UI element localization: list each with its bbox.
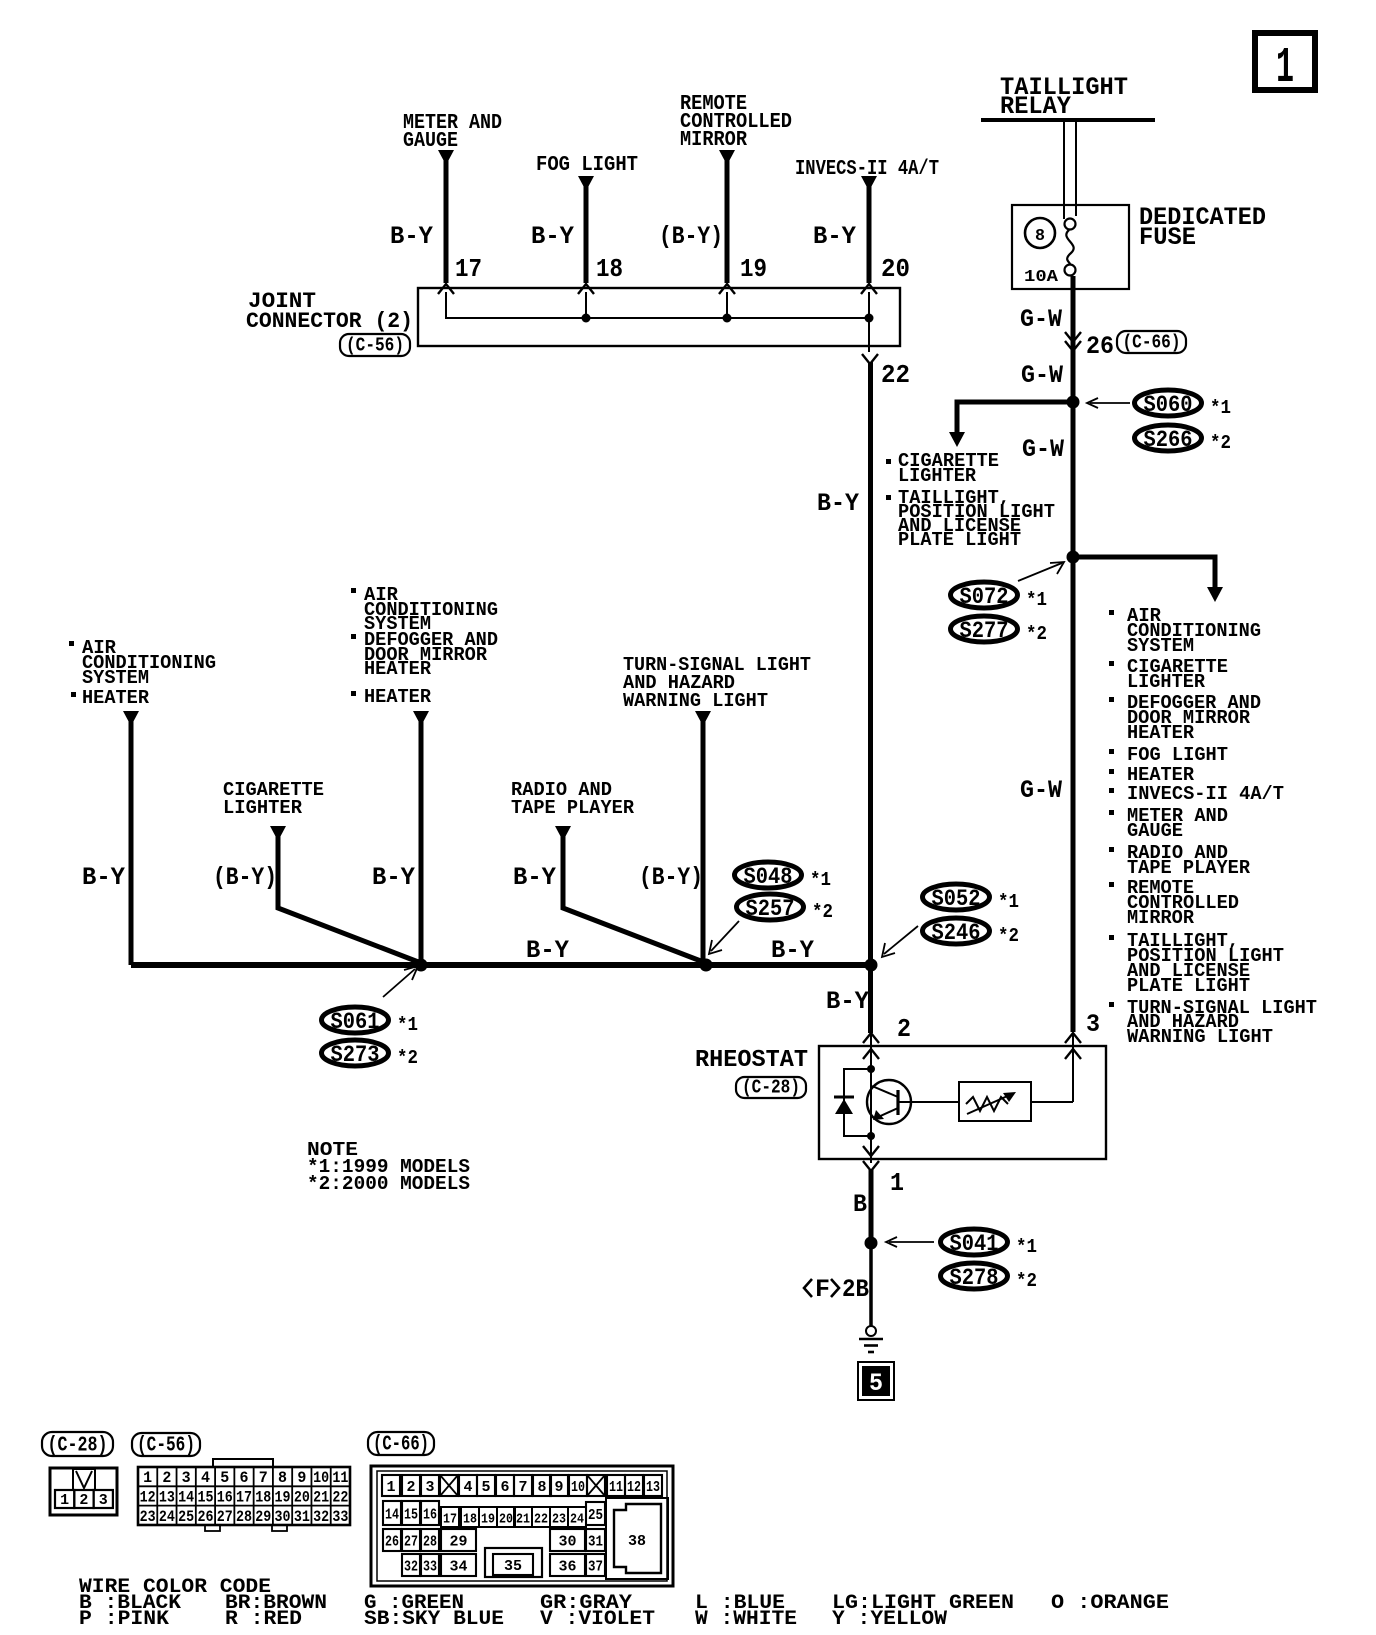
diode branch wire [844, 1069, 871, 1136]
svg-text:W :WHITE: W :WHITE [695, 1608, 797, 1630]
svg-text:B-Y: B-Y [390, 222, 433, 251]
svg-text:14: 14 [385, 1507, 399, 1524]
svg-text:WARNING LIGHT: WARNING LIGHT [623, 690, 768, 712]
wire label (F)2B [804, 1275, 869, 1304]
node rheostat internal top [867, 1065, 875, 1073]
component JOINT CONNECTOR (2) label [246, 289, 413, 334]
svg-text:2B: 2B [842, 1275, 869, 1304]
svg-text:3: 3 [182, 1469, 191, 1487]
svg-text:G-W: G-W [1022, 435, 1064, 464]
joint connector box C-56 [418, 288, 900, 346]
svg-text:(B-Y): (B-Y) [639, 863, 703, 892]
wire B-Y from A/C heater [123, 711, 139, 965]
svg-text:7: 7 [519, 1479, 528, 1496]
destination list cigarette lighter / taillight [886, 450, 999, 487]
svg-text:35: 35 [504, 1558, 522, 1575]
svg-text:3: 3 [99, 1492, 108, 1509]
svg-text:G-W: G-W [1021, 361, 1063, 390]
note 1999/2000 models [307, 1139, 470, 1195]
svg-text:1: 1 [60, 1492, 69, 1509]
svg-text:18: 18 [255, 1489, 271, 1507]
pin 20 entry arrow [861, 284, 877, 294]
svg-text:B-Y: B-Y [82, 863, 125, 892]
junction dot pin19 bus [723, 314, 732, 323]
svg-text:3: 3 [426, 1479, 435, 1496]
svg-text:23: 23 [552, 1512, 566, 1528]
svg-text:*2:2000 MODELS: *2:2000 MODELS [307, 1173, 470, 1195]
joint connector internal bus [446, 292, 869, 352]
svg-text:22: 22 [881, 360, 910, 390]
wire (B-Y) from remote controlled mirror [719, 150, 735, 283]
svg-text:S052: S052 [932, 886, 981, 912]
rheostat pin 3 entry arrows [1065, 1033, 1081, 1102]
arrow from S041 to junction [886, 1237, 934, 1247]
svg-text:B: B [853, 1190, 867, 1219]
svg-text:*2: *2 [812, 901, 833, 923]
component TURN-SIGNAL LIGHT AND HAZARD WARNING LIGHT label [623, 654, 811, 712]
svg-text:S061: S061 [331, 1009, 380, 1035]
svg-text:FUSE: FUSE [1139, 223, 1196, 252]
svg-text:8: 8 [1035, 227, 1045, 246]
svg-text:FOG LIGHT: FOG LIGHT [536, 154, 638, 177]
svg-text:30: 30 [559, 1534, 577, 1551]
svg-text:21: 21 [516, 1512, 530, 1528]
svg-text:(B-Y): (B-Y) [213, 863, 277, 892]
svg-text:LIGHTER: LIGHTER [898, 465, 977, 487]
svg-text:FOG LIGHT: FOG LIGHT [1127, 744, 1228, 766]
svg-text:15: 15 [197, 1489, 213, 1507]
svg-text:10: 10 [571, 1479, 585, 1496]
svg-text:F: F [815, 1275, 830, 1304]
wire color code legend [79, 1576, 1169, 1631]
svg-text:HEATER: HEATER [1127, 722, 1195, 744]
ground reference box 5 [858, 1362, 894, 1400]
svg-text:WARNING LIGHT: WARNING LIGHT [1127, 1026, 1273, 1048]
svg-text:32: 32 [404, 1559, 418, 1576]
svg-text:1: 1 [143, 1469, 152, 1487]
svg-text:8: 8 [538, 1479, 547, 1496]
svg-text:6: 6 [240, 1469, 249, 1487]
splice S277 [951, 616, 1048, 645]
svg-text:S072: S072 [960, 584, 1009, 610]
svg-text:S273: S273 [331, 1042, 380, 1068]
svg-text:27: 27 [404, 1534, 418, 1551]
svg-text:29: 29 [255, 1508, 271, 1526]
svg-text:(B-Y): (B-Y) [659, 222, 723, 251]
svg-text:*1: *1 [1026, 589, 1047, 611]
rheostat pin 1 exit arrows [863, 1146, 879, 1171]
svg-text:*2: *2 [397, 1047, 418, 1069]
svg-text:*2: *2 [998, 925, 1019, 947]
svg-text:*1: *1 [1210, 397, 1231, 419]
wire branch left to cigarette lighter / taillight [949, 402, 1073, 447]
svg-text:32: 32 [313, 1508, 329, 1526]
svg-text:4: 4 [201, 1469, 210, 1487]
svg-text:*2: *2 [1026, 623, 1047, 645]
arrow from S072 to junction [1018, 562, 1064, 581]
splice S048 [735, 862, 832, 891]
wire (B-Y) from turn-signal light [695, 711, 711, 965]
svg-text:9: 9 [297, 1469, 306, 1487]
svg-text:24: 24 [570, 1512, 584, 1528]
svg-text:*1: *1 [1016, 1236, 1037, 1258]
svg-text:S041: S041 [950, 1231, 999, 1257]
connector C-66 pinout [371, 1466, 673, 1586]
svg-text:25: 25 [588, 1507, 603, 1524]
svg-text:RHEOSTAT: RHEOSTAT [695, 1047, 808, 1074]
svg-text:SB:SKY BLUE: SB:SKY BLUE [364, 1608, 504, 1630]
node splice S052/S246 junction [865, 959, 878, 972]
wire B-Y long vertical from pin 22 [868, 362, 873, 1033]
splice S060 [1135, 390, 1232, 419]
svg-text:13: 13 [646, 1479, 660, 1496]
dedicated fuse box (fuse 8, 10A) [1012, 205, 1129, 289]
svg-text:19: 19 [740, 254, 767, 284]
svg-text:11: 11 [332, 1469, 348, 1487]
splice S072 [951, 582, 1048, 611]
junction dot pin18 bus [582, 314, 591, 323]
svg-text:10A: 10A [1024, 268, 1059, 287]
svg-text:S257: S257 [746, 896, 795, 922]
wire relay to dedicated fuse (double line) [1064, 122, 1076, 219]
wire B-Y from radio [555, 826, 706, 963]
component REMOTE CONTROLLED MIRROR label [680, 93, 792, 152]
fuse number circle 8 [1025, 218, 1055, 248]
svg-text:4: 4 [464, 1479, 473, 1496]
connector ref C-28 pill (rheostat) [736, 1077, 806, 1099]
svg-text:GAUGE: GAUGE [403, 130, 458, 153]
arrow from S061 to junction [383, 966, 418, 997]
svg-text:26: 26 [1086, 332, 1114, 361]
svg-text:MIRROR: MIRROR [680, 129, 747, 152]
arrow from S052 to junction [882, 926, 918, 957]
arrow from S060 to junction [1087, 398, 1130, 408]
svg-text:29: 29 [450, 1534, 468, 1551]
svg-text:5: 5 [220, 1469, 229, 1487]
wire B-Y from meter and gauge [438, 150, 454, 283]
svg-text:HEATER: HEATER [82, 687, 150, 709]
connector C-66 pin 26 crossing chevrons [1065, 332, 1081, 351]
pin 18 entry arrow [578, 284, 594, 294]
svg-text:B-Y: B-Y [513, 863, 556, 892]
svg-text:2: 2 [407, 1479, 416, 1496]
component CIGARETTE LIGHTER label [223, 779, 324, 819]
svg-text:INVECS-II 4A/T: INVECS-II 4A/T [1127, 783, 1284, 805]
svg-text:O :ORANGE: O :ORANGE [1051, 1592, 1169, 1615]
svg-text:22: 22 [332, 1489, 348, 1507]
svg-text:PLATE LIGHT: PLATE LIGHT [898, 529, 1021, 551]
svg-text:(C-56): (C-56) [137, 1435, 195, 1458]
svg-text:2: 2 [79, 1492, 88, 1509]
svg-text:31: 31 [588, 1534, 603, 1551]
splice S273 [322, 1040, 419, 1069]
svg-text:23: 23 [140, 1508, 156, 1526]
svg-text:11: 11 [609, 1479, 623, 1496]
svg-text:20: 20 [294, 1489, 310, 1507]
svg-text:S278: S278 [950, 1265, 999, 1291]
svg-text:16: 16 [217, 1489, 233, 1507]
svg-text:(C-66): (C-66) [373, 1434, 429, 1457]
transistor Q1 [867, 1080, 911, 1124]
svg-text:B-Y: B-Y [817, 489, 859, 518]
svg-text:*2: *2 [1210, 432, 1231, 454]
wire transistor to variable resistor [898, 1101, 959, 1103]
connector ref C-56 pill [340, 334, 410, 357]
svg-text:G-W: G-W [1020, 776, 1062, 805]
svg-text:26: 26 [197, 1508, 213, 1526]
svg-text:V :VIOLET: V :VIOLET [540, 1608, 655, 1630]
node rheostat internal bottom [867, 1132, 875, 1140]
svg-text:S266: S266 [1144, 427, 1193, 453]
svg-text:*1: *1 [998, 891, 1019, 913]
svg-text:TAPE PLAYER: TAPE PLAYER [1127, 857, 1251, 879]
junction dot pin20 bus [865, 314, 874, 323]
svg-text:15: 15 [404, 1507, 418, 1524]
svg-text:S060: S060 [1144, 392, 1193, 418]
fuse element [1065, 219, 1076, 276]
svg-text:*2: *2 [1016, 1270, 1037, 1292]
variable resistor VR1 [966, 1092, 1016, 1114]
svg-text:B-Y: B-Y [372, 863, 415, 892]
svg-text:R :RED: R :RED [225, 1608, 302, 1630]
splice S266 [1135, 425, 1232, 454]
wire to ground [869, 1243, 873, 1326]
component TAILLIGHT RELAY label [1000, 73, 1128, 121]
page number box 1 [1255, 33, 1315, 97]
svg-text:6: 6 [501, 1479, 510, 1496]
svg-text:19: 19 [481, 1512, 495, 1528]
svg-text:HEATER: HEATER [364, 658, 432, 680]
svg-text:*1: *1 [397, 1014, 418, 1036]
svg-text:RELAY: RELAY [1000, 92, 1071, 121]
component METER AND GAUGE label [403, 112, 502, 153]
wire B-Y horizontal bus [131, 962, 871, 968]
node splice S061/S273 junction [415, 959, 428, 972]
svg-text:*1: *1 [810, 869, 831, 891]
arrow from S257 to junction [709, 921, 739, 954]
component RADIO AND TAPE PLAYER label [511, 779, 635, 819]
splice S052 [923, 884, 1020, 913]
connector ref C-66 pill (pinout) [368, 1432, 434, 1457]
svg-text:G-W: G-W [1020, 305, 1062, 334]
svg-text:GAUGE: GAUGE [1127, 820, 1183, 842]
connector ref C-28 pill (pinout) [42, 1432, 113, 1458]
svg-text:2: 2 [162, 1469, 171, 1487]
svg-text:3: 3 [1086, 1010, 1100, 1039]
svg-text:33: 33 [332, 1508, 348, 1526]
svg-text:SYSTEM: SYSTEM [1127, 635, 1194, 657]
node splice S041/S278 junction [865, 1237, 878, 1250]
svg-text:B-Y: B-Y [771, 936, 814, 965]
splice S061 [322, 1007, 419, 1036]
pin 22 exit arrow [862, 354, 878, 364]
svg-text:LIGHTER: LIGHTER [223, 797, 303, 819]
svg-text:12: 12 [627, 1479, 641, 1496]
svg-text:1: 1 [387, 1479, 396, 1496]
svg-text:17: 17 [236, 1489, 252, 1507]
svg-text:5: 5 [869, 1369, 883, 1398]
svg-text:Y :YELLOW: Y :YELLOW [832, 1608, 947, 1630]
svg-text:18: 18 [463, 1512, 477, 1528]
splice S246 [923, 918, 1020, 947]
connector ref C-66 pill [1117, 331, 1186, 354]
svg-text:17: 17 [443, 1512, 457, 1528]
svg-text:20: 20 [499, 1512, 513, 1528]
svg-text:(C-28): (C-28) [48, 1435, 108, 1458]
taillight relay bus bar [981, 118, 1155, 122]
destination list A/C defogger door mirror heater [351, 584, 498, 708]
splice S257 [737, 894, 834, 923]
svg-text:36: 36 [559, 1559, 577, 1576]
svg-text:14: 14 [178, 1489, 194, 1507]
svg-text:13: 13 [159, 1489, 175, 1507]
ground G1 [859, 1326, 883, 1352]
wire B-Y from defogger group [413, 711, 429, 965]
svg-text:HEATER: HEATER [364, 686, 432, 708]
svg-text:22: 22 [534, 1512, 548, 1528]
node splice S060/S266 junction [1067, 396, 1080, 409]
svg-text:12: 12 [140, 1489, 156, 1507]
svg-text:24: 24 [159, 1508, 175, 1526]
svg-text:(C-28): (C-28) [742, 1077, 800, 1099]
wire (B-Y) from cigarette lighter [270, 826, 421, 963]
svg-text:34: 34 [450, 1559, 468, 1576]
svg-text:8: 8 [278, 1469, 287, 1487]
diode D1 [834, 1097, 854, 1114]
svg-text:TAPE PLAYER: TAPE PLAYER [511, 797, 635, 819]
svg-text:33: 33 [423, 1559, 437, 1576]
node splice S048/S257 junction [700, 959, 713, 972]
connector C-56 pinout [138, 1459, 350, 1531]
svg-text:30: 30 [275, 1508, 291, 1526]
svg-text:5: 5 [482, 1479, 491, 1496]
svg-text:B-Y: B-Y [826, 987, 869, 1016]
svg-text:1: 1 [1276, 40, 1294, 97]
svg-text:20: 20 [881, 254, 910, 284]
svg-text:1: 1 [890, 1168, 904, 1198]
svg-text:B-Y: B-Y [526, 936, 569, 965]
svg-text:26: 26 [385, 1534, 399, 1551]
rheostat pin 2 entry arrows [863, 1033, 879, 1069]
wire branch right to accessory loads [1073, 557, 1223, 602]
svg-text:B-Y: B-Y [531, 222, 574, 251]
wire B-Y from fog light [578, 176, 594, 283]
variable resistor box [959, 1082, 1031, 1121]
svg-text:LIGHTER: LIGHTER [1127, 671, 1206, 693]
svg-text:31: 31 [294, 1508, 310, 1526]
wire B from rheostat pin 1 [869, 1169, 874, 1243]
svg-text:7: 7 [259, 1469, 268, 1487]
svg-text:21: 21 [313, 1489, 329, 1507]
connector C-28 pinout [50, 1468, 117, 1515]
svg-text:S277: S277 [960, 618, 1009, 644]
svg-text:SYSTEM: SYSTEM [82, 667, 149, 689]
svg-text:PLATE LIGHT: PLATE LIGHT [1127, 975, 1250, 997]
svg-text:S048: S048 [744, 864, 793, 890]
svg-text:28: 28 [236, 1508, 252, 1526]
svg-text:(C-66): (C-66) [1123, 332, 1181, 354]
svg-text:MIRROR: MIRROR [1127, 907, 1195, 929]
connector ref C-56 pill (pinout) [132, 1433, 200, 1458]
node splice S072/S277 junction [1067, 551, 1080, 564]
rheostat box C-28 [819, 1046, 1106, 1159]
splice S278 [941, 1263, 1038, 1292]
component DEDICATED FUSE label [1139, 203, 1266, 252]
svg-text:B-Y: B-Y [813, 222, 856, 251]
svg-text:18: 18 [596, 254, 623, 284]
svg-text:P :PINK: P :PINK [79, 1608, 169, 1630]
pin 19 entry arrow [719, 284, 735, 294]
svg-text:9: 9 [555, 1479, 564, 1496]
pin 17 entry arrow [438, 284, 454, 294]
svg-text:(C-56): (C-56) [346, 335, 404, 357]
wire rheostat internal vertical [870, 1069, 872, 1163]
svg-text:CONNECTOR (2): CONNECTOR (2) [246, 309, 413, 334]
svg-text:16: 16 [423, 1507, 437, 1524]
svg-text:28: 28 [423, 1534, 437, 1551]
svg-text:25: 25 [178, 1508, 194, 1526]
wire G-W fuse output vertical main [1071, 276, 1076, 1032]
wire resistor to pin 3 [1031, 1101, 1073, 1103]
splice S041 [941, 1229, 1038, 1258]
destination list air conditioning system / heater [69, 637, 216, 709]
svg-text:10: 10 [313, 1469, 329, 1487]
svg-text:27: 27 [217, 1508, 233, 1526]
destination list right accessory loads [1109, 605, 1317, 1048]
svg-text:2: 2 [897, 1014, 911, 1044]
svg-text:19: 19 [275, 1489, 291, 1507]
svg-text:S246: S246 [932, 920, 981, 946]
svg-text:38: 38 [628, 1533, 646, 1550]
wire B-Y from INVECS-II [861, 176, 877, 283]
svg-text:17: 17 [455, 254, 482, 284]
svg-text:37: 37 [588, 1559, 603, 1576]
